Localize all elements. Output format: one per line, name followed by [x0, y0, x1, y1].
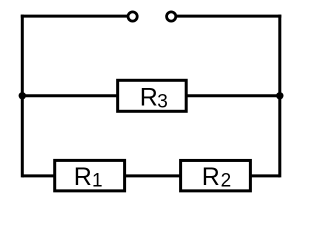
wire bottom branch: [22, 174, 280, 177]
terminal J2 (open circle, right): [167, 12, 176, 21]
wire left vertical rail: [21, 15, 24, 178]
resistor R2: [181, 160, 251, 191]
svg-text:1: 1: [92, 170, 103, 191]
svg-text:2: 2: [221, 170, 232, 191]
svg-text:R: R: [202, 163, 220, 191]
svg-text:R: R: [140, 83, 158, 111]
wire right vertical rail: [278, 15, 281, 178]
terminal J1 (open circle, left): [128, 12, 137, 21]
node B (junction dot, right): [276, 92, 283, 99]
wire top-left horizontal: [21, 15, 133, 18]
resistor R3: [118, 80, 187, 112]
resistor R1: [55, 160, 125, 191]
svg-text:3: 3: [157, 91, 168, 112]
wire top-right horizontal: [171, 15, 281, 18]
node A (junction dot, left): [19, 92, 26, 99]
wire middle branch: [22, 94, 280, 97]
svg-text:R: R: [74, 163, 92, 191]
